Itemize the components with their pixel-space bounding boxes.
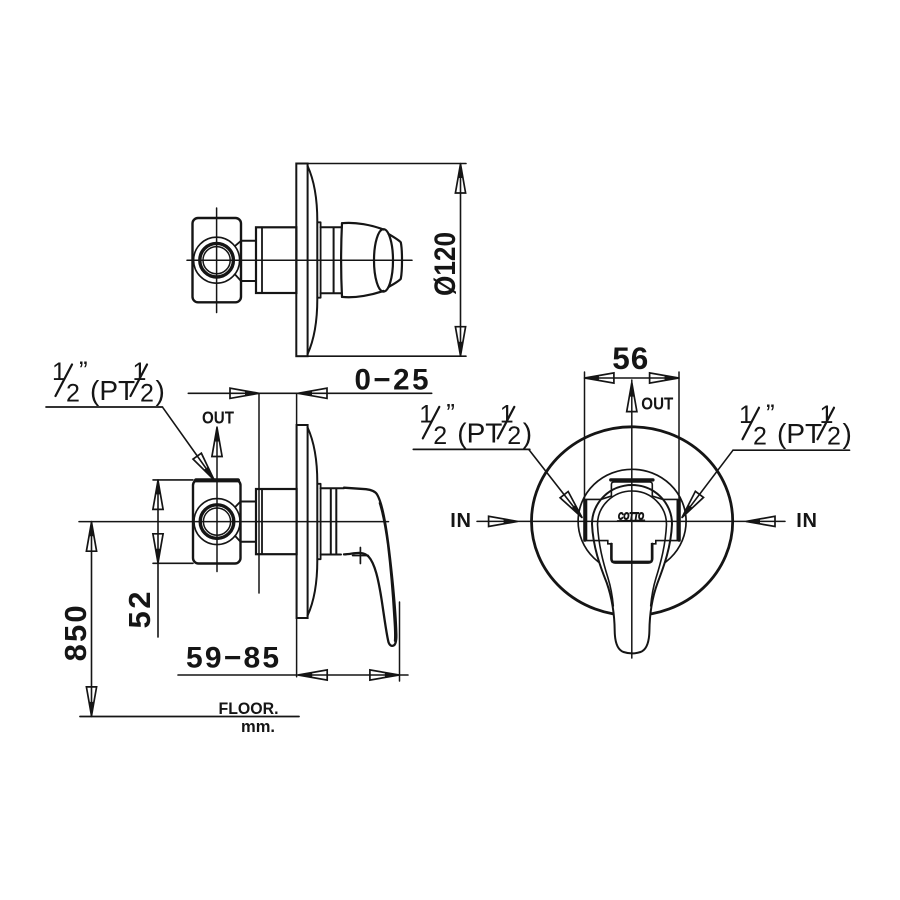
leader line (front right): [682, 450, 733, 517]
svg-text:59−85: 59−85: [186, 642, 279, 675]
valve body (side view): [193, 480, 241, 564]
52 extension lines: [153, 480, 193, 563]
svg-text:IN: IN: [450, 510, 472, 532]
svg-text:Ø120: Ø120: [429, 232, 462, 296]
body boss circle (side): [194, 499, 240, 545]
inlet port ring (side): [200, 505, 234, 539]
svg-text:52: 52: [122, 592, 157, 629]
OUT arrow (front): [627, 383, 637, 412]
escutcheon cone profile: [308, 166, 318, 354]
escutcheon dome step: [317, 222, 320, 297]
0-25 dimension line: [188, 392, 431, 394]
body boss circle: [194, 237, 240, 283]
knob tip: [389, 234, 402, 287]
wall plate (top view): [296, 164, 307, 357]
handle hub (side view): [321, 488, 344, 554]
knob face ellipse: [374, 229, 393, 291]
neck (side): [241, 502, 257, 542]
inlet port bore (side): [203, 508, 230, 535]
svg-text:OUT: OUT: [641, 394, 673, 414]
dia 120 extension lines: [308, 164, 466, 357]
59-85 extension line right: [399, 602, 401, 681]
svg-text:850: 850: [58, 605, 93, 661]
svg-text:OUT: OUT: [202, 408, 234, 428]
housing rim line (side): [261, 489, 263, 554]
flange circle: [532, 427, 733, 616]
svg-text:FLOOR.: FLOOR.: [219, 699, 279, 718]
IN arrows: [489, 516, 518, 526]
escutcheon dome step (side): [317, 484, 320, 559]
escutcheon cone profile (side): [308, 428, 318, 616]
floor line: [80, 716, 299, 718]
fillet curves: [235, 241, 241, 281]
svg-text:mm.: mm.: [241, 717, 275, 736]
handle hub (top view): [321, 227, 342, 293]
valve body (top view): [193, 218, 242, 302]
cartridge housing (top view): [256, 227, 296, 293]
neck to housing: [241, 241, 256, 281]
half inch label (side view): [46, 356, 165, 408]
svg-text:0−25: 0−25: [355, 364, 429, 397]
centerline horizontal (front): [477, 520, 785, 522]
svg-text:56: 56: [612, 340, 648, 376]
finished wall line: [258, 393, 260, 593]
half inch label (front left): [413, 398, 532, 450]
inlet port ring: [200, 243, 234, 277]
svg-text:IN: IN: [796, 510, 818, 532]
knob rear edge: [340, 223, 343, 297]
dia 120 dimension line: [460, 164, 462, 357]
handle grip inner horseshoe: [598, 491, 667, 606]
half inch label (front right): [733, 399, 852, 451]
59-85 dimension line: [178, 674, 408, 676]
56 dimension line: [585, 377, 680, 379]
plate extension line: [296, 393, 298, 676]
52 dimension line: [157, 480, 159, 637]
OUT arrow (side): [212, 428, 222, 457]
wall plate (side view): [297, 425, 308, 618]
leader line (front left): [529, 450, 582, 518]
centerline horizontal (top view): [187, 259, 412, 261]
850 dimension line: [91, 522, 93, 717]
centerline vertical / OUT leader (side view): [216, 427, 218, 572]
56 extension lines: [585, 372, 680, 516]
lever handle (side view): [344, 488, 396, 646]
cartridge housing (side): [256, 489, 297, 554]
fillet curves (side): [235, 502, 240, 542]
body outlet face (bold top edge): [196, 478, 238, 482]
housing rim line: [261, 227, 263, 293]
escutcheon dome circle: [578, 469, 686, 573]
plus mark on lever: [353, 548, 369, 564]
centerline vertical (top view): [216, 208, 218, 313]
leader line (side label): [163, 408, 214, 480]
inlet port bore: [203, 247, 230, 274]
mounting bracket outline: [587, 482, 678, 561]
handle grip outline (outer horseshoe): [592, 485, 672, 653]
bracket bold edges: [611, 478, 653, 481]
centerline horizontal (side view): [79, 521, 389, 523]
centerline vertical (front): [631, 380, 633, 658]
lever edge highlight: [380, 503, 395, 641]
knob top and bottom profile: [342, 223, 384, 297]
